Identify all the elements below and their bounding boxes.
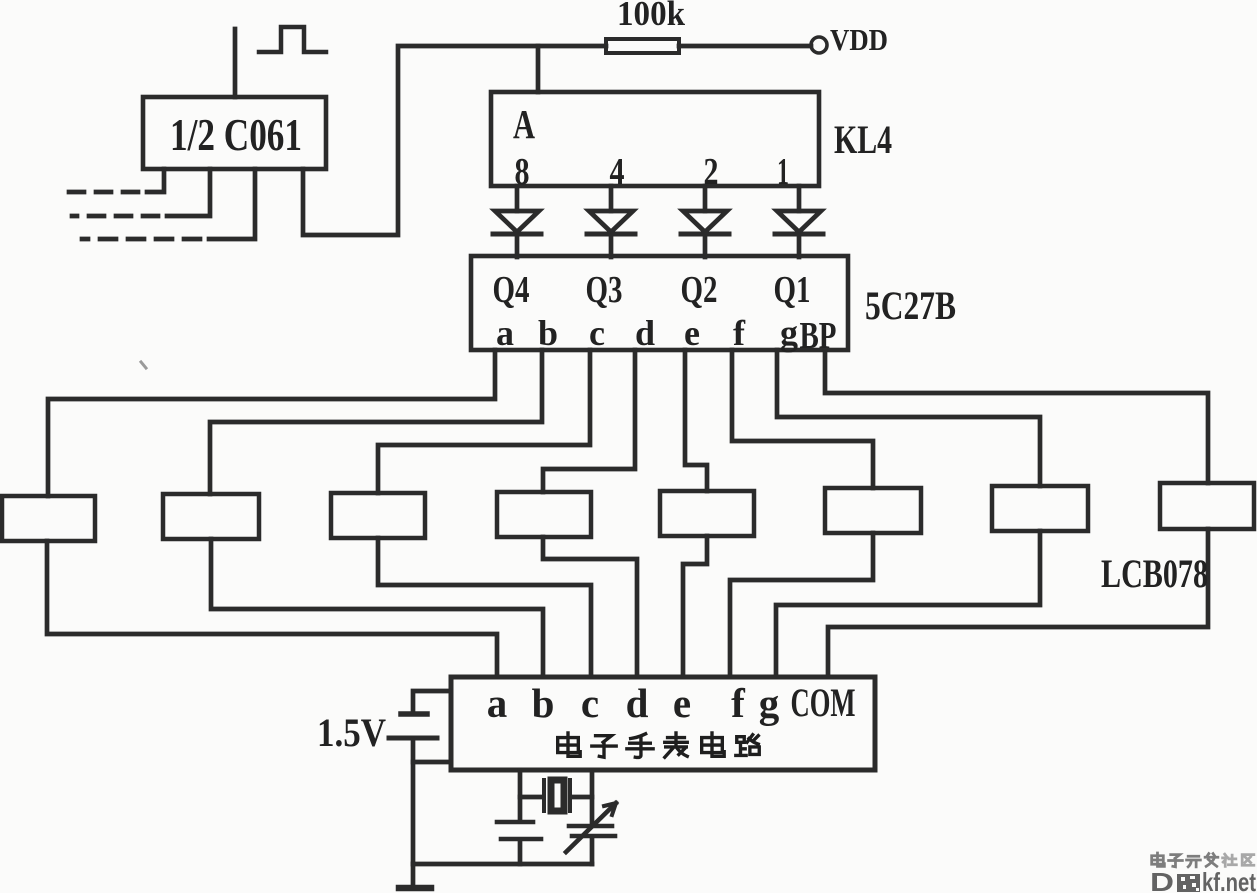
LCD pad 2 (163, 494, 259, 539)
svg-text:Q2: Q2 (681, 269, 718, 311)
wire battery minus down (411, 740, 416, 864)
battery B1 short plate (401, 711, 427, 717)
svg-text:100k: 100k (617, 0, 686, 33)
svg-text:1: 1 (777, 151, 789, 193)
svg-text:BP: BP (800, 315, 837, 357)
resistor R1 body (606, 39, 679, 53)
svg-text:a: a (496, 313, 514, 353)
dashed wire 1 (60, 190, 138, 195)
wire watch box to crystal node left (518, 770, 523, 820)
capacitor C2 variable bottom plate (572, 834, 615, 839)
wire pad2 to watch b (211, 539, 543, 677)
svg-text:1.5V: 1.5V (317, 710, 386, 755)
svg-text:4: 4 (610, 151, 625, 193)
wire node to KL4 input A (536, 46, 541, 92)
wire 5C27B BP to pad8 (825, 350, 1208, 483)
svg-text:5C27B: 5C27B (865, 283, 956, 328)
wire pad1 to watch a (47, 541, 497, 677)
label char 电 (dian) (702, 733, 725, 756)
svg-text:c: c (589, 313, 605, 353)
wire crystal right lead (572, 795, 592, 800)
wire pad5 to watch e (683, 536, 707, 677)
svg-text:e: e (673, 680, 691, 726)
watermark char 电 (1152, 853, 1165, 866)
wire U1 pin4 to VDD rail (303, 46, 606, 235)
capacitor C1 bottom plate (501, 837, 541, 842)
svg-text:KL4: KL4 (834, 117, 892, 162)
LCD pad 6 (825, 488, 921, 533)
svg-text:2: 2 (704, 151, 719, 193)
svg-text:d: d (635, 313, 655, 353)
IC KL4 box (491, 92, 819, 186)
svg-text:d: d (626, 680, 649, 726)
scan speck (141, 362, 146, 368)
wire pad3 to watch c (378, 538, 591, 677)
wire watch box to crystal node right (590, 770, 595, 824)
svg-text:1/2 C061: 1/2 C061 (170, 110, 302, 160)
LCD pad 5 (660, 491, 754, 536)
wire pad8 to watch COM (828, 529, 1208, 677)
svg-text:Q3: Q3 (586, 269, 623, 311)
svg-text:c: c (581, 680, 599, 726)
wire 5C27B e to pad5 (685, 350, 707, 491)
wire U1 pin1 stub (147, 169, 164, 192)
capacitor C1 top plate (497, 820, 533, 825)
wire 5C27B a to pad1 (48, 350, 495, 496)
wire pad6 to watch f (730, 533, 873, 677)
wire D1 to 5C27B Q4 (515, 236, 520, 257)
wire 5C27B g to pad7 (777, 350, 1040, 486)
LCD pad 8 (1160, 483, 1254, 529)
wire D2 to 5C27B Q3 (609, 236, 614, 257)
LCD pad 1 (2, 496, 95, 541)
diode D2 (589, 211, 633, 232)
svg-text:VDD: VDD (830, 22, 888, 57)
wire D4 to 5C27B Q1 (797, 236, 802, 257)
battery B1 long plate (389, 736, 437, 741)
svg-text:g: g (759, 680, 780, 726)
diode D1 (495, 211, 539, 232)
dashed wire 2 (72, 214, 158, 219)
wire KL4 pin8 to diode D1 (515, 186, 520, 211)
crystal X1 left electrode (542, 780, 546, 811)
wire KL4 pin2 to diode D3 (703, 186, 708, 211)
LCD pad 7 (992, 486, 1088, 531)
svg-text:g: g (780, 313, 798, 353)
svg-text:D: D (1150, 867, 1174, 893)
diode D4 (777, 211, 821, 232)
wire pad4 to watch d (543, 537, 637, 677)
watermark char 子 (1169, 855, 1183, 867)
terminal VDD circle (811, 37, 827, 53)
svg-text:A: A (513, 101, 535, 147)
svg-text:a: a (487, 680, 508, 726)
wire bottom rail (413, 862, 592, 867)
wire D3 to 5C27B Q2 (703, 236, 708, 257)
label char 路 (lu) (736, 735, 759, 756)
wire U1 pin2 stub (167, 169, 210, 216)
svg-text:COM: COM (791, 680, 856, 725)
watermark char 发 (1205, 854, 1218, 867)
wire crystal left lead (520, 795, 542, 800)
watermark char 社 (1223, 854, 1237, 866)
wire 5C27B b to pad2 (210, 350, 542, 494)
svg-text:8: 8 (515, 151, 530, 193)
IC U1 1/2 C061 box (143, 97, 326, 169)
label char 手 (shou) (627, 734, 653, 758)
wire C1 to rail (518, 841, 523, 864)
wire resistor to VDD terminal (679, 44, 811, 49)
svg-text:b: b (532, 680, 555, 726)
svg-text:e: e (684, 313, 700, 353)
IC watch circuit box (451, 677, 875, 770)
capacitor C2 variable top plate (569, 824, 612, 829)
wire KL4 pin1 to diode D4 (797, 186, 802, 211)
crystal X1 right electrode (568, 780, 572, 811)
wire clock input to U1 (233, 29, 238, 97)
label char 表 (biao) (665, 733, 688, 757)
watermark logo pixel block Z (1177, 874, 1200, 892)
label char 电 (dian) of 电子手表电路 (558, 733, 581, 756)
ground symbol (411, 864, 416, 886)
IC 5C27B box (471, 256, 848, 350)
wire KL4 pin4 to diode D2 (609, 186, 614, 211)
crystal X1 body (551, 780, 564, 811)
watermark char 区 (1242, 855, 1254, 866)
dashed wire 3 (82, 237, 200, 242)
watermark char 开 (1187, 856, 1201, 867)
svg-text:LCB078: LCB078 (1101, 551, 1208, 596)
svg-text:f: f (733, 313, 746, 353)
svg-text:f: f (731, 680, 746, 726)
wire 5C27B c to pad3 (378, 350, 590, 493)
svg-text:b: b (538, 313, 558, 353)
capacitor C2 arrow (566, 803, 616, 852)
wire 5C27B d to pad4 (543, 350, 635, 492)
wire pad7 to watch g (776, 531, 1040, 677)
LCD pad 4 (497, 492, 591, 537)
pulse waveform symbol (259, 27, 326, 52)
wire C2 to rail (590, 838, 595, 864)
svg-text:Q1: Q1 (774, 269, 811, 311)
wire U1 pin3 stub (209, 169, 255, 239)
diode D3 (683, 211, 727, 232)
label char 子 (zi) (592, 736, 616, 758)
LCD pad 3 (331, 493, 425, 538)
wire 5C27B f to pad6 (732, 350, 873, 488)
svg-text:kf.net: kf.net (1202, 867, 1256, 893)
wire battery minus to watch box (413, 760, 449, 765)
wire battery plus to watch box (413, 691, 449, 712)
svg-text:Q4: Q4 (493, 269, 530, 311)
